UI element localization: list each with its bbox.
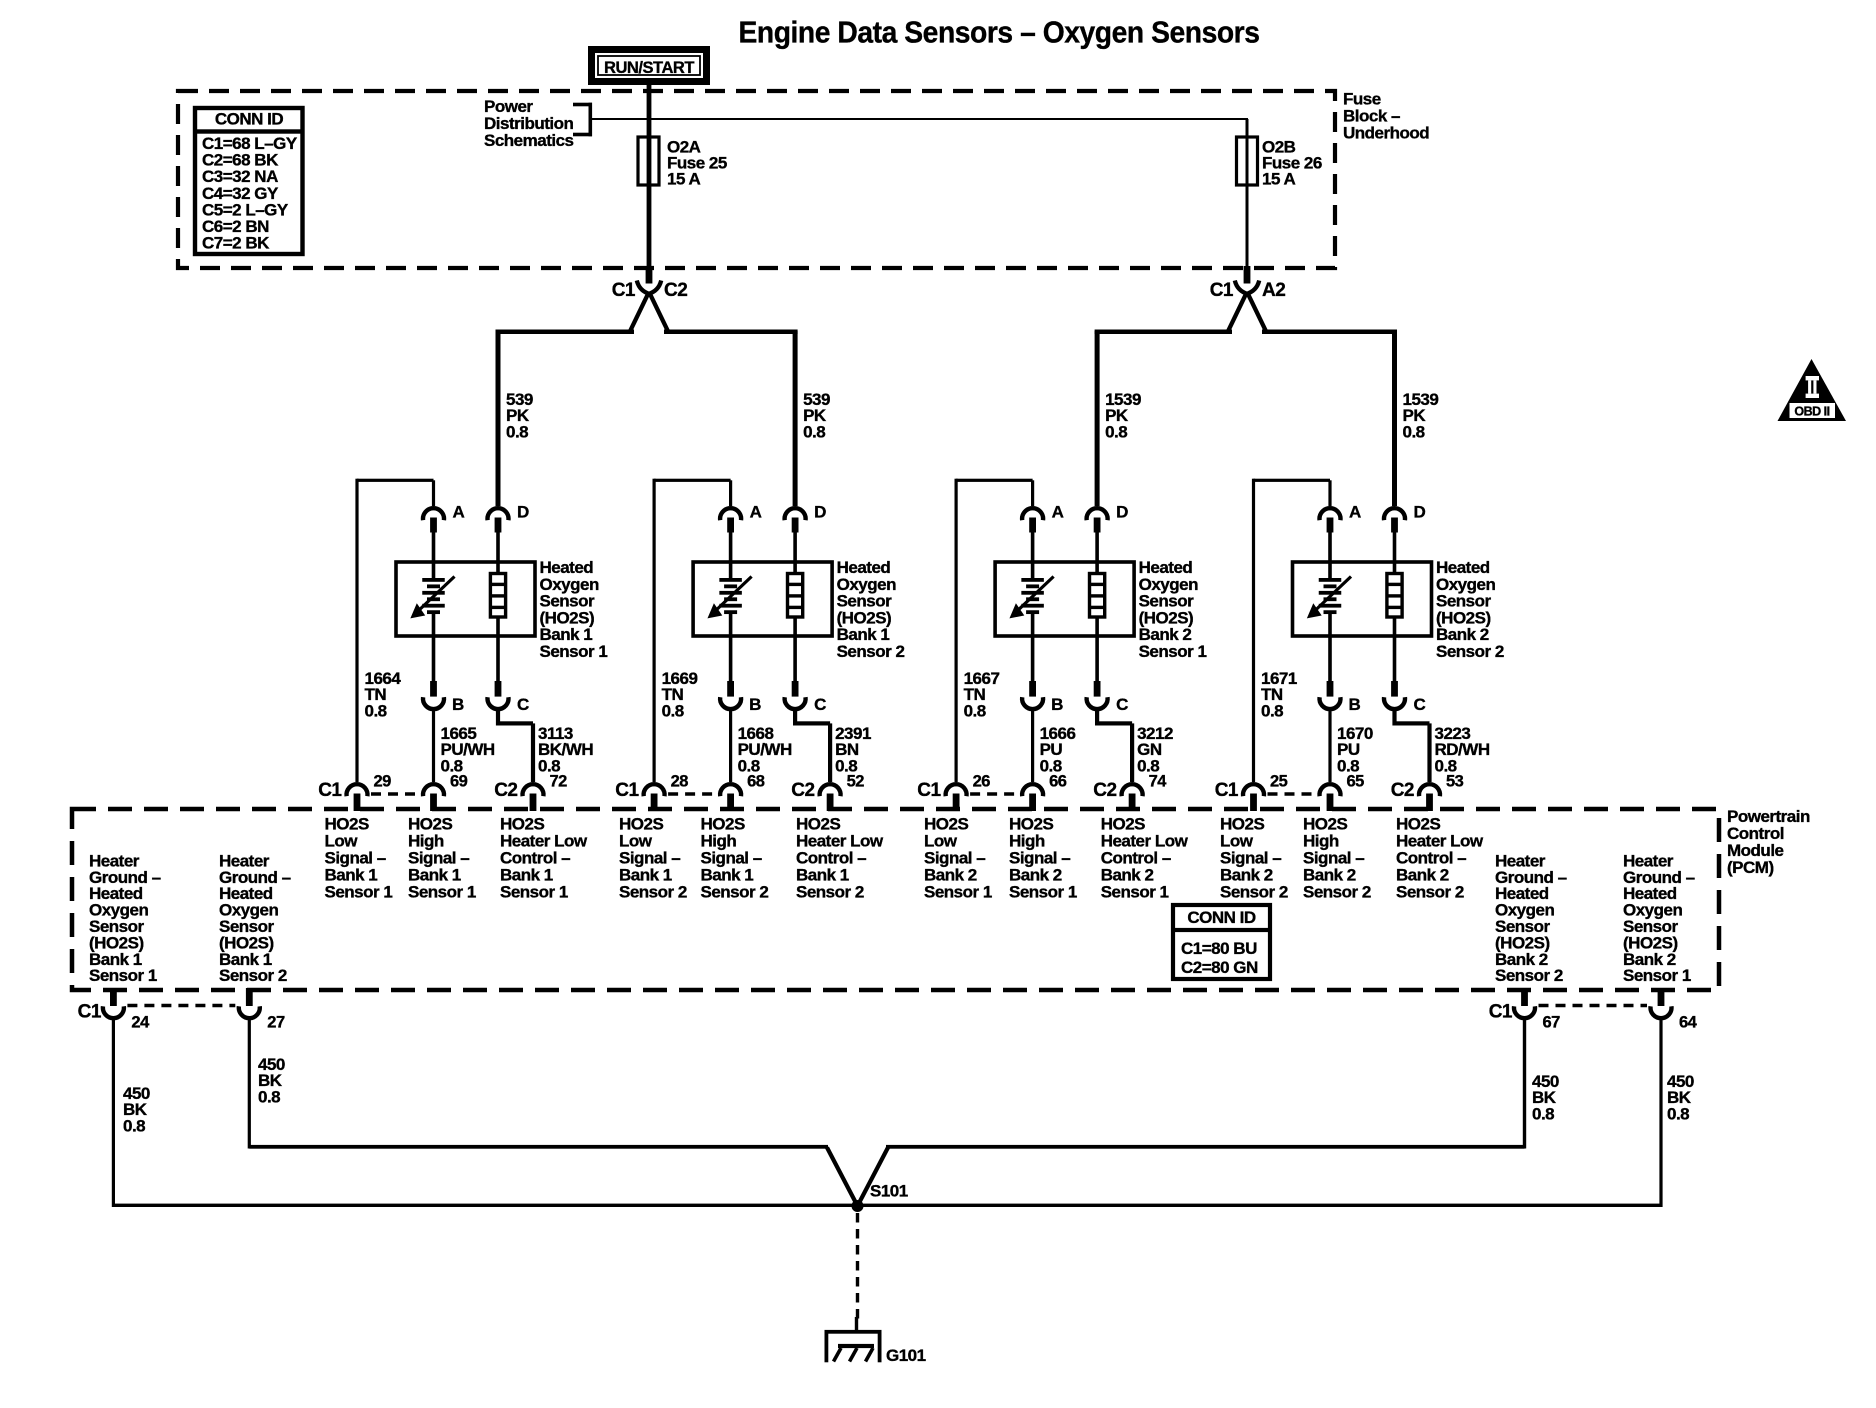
connector PCM C1 pin 24 (heater ground) [78, 988, 150, 1032]
svg-text:CONN ID: CONN ID [1187, 908, 1256, 927]
wire: 450 BK pin 24 to S101 [112, 1018, 115, 1208]
connector terminal B of HO2S B2S1 [1022, 681, 1063, 714]
svg-text:Sensor 2: Sensor 2 [701, 883, 769, 902]
svg-text:C1: C1 [1210, 280, 1234, 301]
connector terminal D of HO2S B1S1 [488, 503, 529, 533]
svg-text:B: B [749, 695, 761, 714]
label: PCM pin function Heater Low Bank 2 Sensor 2 [1396, 815, 1484, 902]
svg-text:0.8: 0.8 [1403, 422, 1425, 441]
label: PCM pin function Heater Ground Bank 2 Sensor 2 [1495, 851, 1567, 985]
svg-text:D: D [517, 503, 529, 522]
HO2S B1S2 sensor outline box [693, 562, 832, 636]
wire: feed to Fuse 26 [1246, 119, 1249, 268]
connector terminal C of HO2S B2S2 [1384, 681, 1426, 714]
label: circuit 539 PK 0.8 [506, 390, 533, 441]
svg-text:A: A [453, 503, 465, 522]
svg-text:Underhood: Underhood [1343, 124, 1429, 143]
connector terminal B of HO2S B1S1 [423, 681, 464, 714]
connector PCM pin 69 [423, 773, 468, 812]
label: PCM pin function Heater Low Bank 1 Sensor 2 [796, 815, 884, 902]
svg-text:C2=80 GN: C2=80 GN [1181, 958, 1258, 977]
wire: high signal B to PCM pin 68 [729, 708, 732, 782]
connector PCM C2 pin 74 [1093, 773, 1167, 812]
label: PCM pin function Heater Ground Bank 1 Sensor 1 [89, 851, 161, 985]
wire: dashed link S101 to G101 [856, 1213, 859, 1320]
label: circuit 3212 GN 0.8 [1137, 724, 1173, 775]
wire: high signal B to PCM pin 66 [1031, 708, 1034, 782]
label: PCM pin function High Bank 1 Sensor 1 [408, 815, 476, 902]
CONN ID table (PCM) [1173, 905, 1270, 979]
svg-text:Sensor 2: Sensor 2 [796, 883, 864, 902]
label: PCM pin function Heater Low Bank 1 Sensor 1 [500, 815, 588, 902]
label: circuit 450 BK 0.8 (pin 24) [123, 1084, 150, 1135]
heater element of HO2S B1S1 [490, 533, 505, 683]
label: PCM pin function High Bank 2 Sensor 1 [1009, 815, 1077, 902]
fuse O2B Fuse 26 15 A [1237, 137, 1322, 189]
connector terminal D of HO2S B1S2 [785, 503, 826, 533]
svg-text:Sensor 2: Sensor 2 [1436, 642, 1504, 661]
wire: terminal A lead into sensor element B2S1 [1031, 533, 1035, 579]
fuse O2A Fuse 25 15 A [638, 137, 727, 189]
wire: RUN/START feed to Fuse 25 [647, 85, 652, 268]
svg-text:RUN/START: RUN/START [604, 58, 695, 77]
HO2S B1S1 sensor outline box [396, 562, 535, 636]
svg-text:D: D [814, 503, 826, 522]
svg-text:C2: C2 [791, 780, 814, 801]
svg-text:Sensor 2: Sensor 2 [619, 883, 687, 902]
label: PCM pin function Heater Low Bank 2 Sensor 1 [1101, 815, 1189, 902]
svg-text:B: B [1349, 695, 1361, 714]
bracket for power distribution note [573, 103, 592, 137]
svg-text:C: C [814, 695, 826, 714]
label: circuit 1668 PU/WH 0.8 [738, 724, 792, 775]
label: PCM pin function High Bank 1 Sensor 2 [701, 815, 769, 902]
label: Powertrain Control Module (PCM) [1727, 807, 1810, 877]
connector C1 internal dashed link pins 26-66 [970, 792, 1019, 796]
svg-text:29: 29 [374, 773, 392, 791]
wire: low-signal loop from PCM pin 28 to terminal A of HO2S B1S2 [653, 479, 733, 782]
heater element of HO2S B2S2 [1387, 533, 1402, 683]
svg-text:74: 74 [1149, 773, 1168, 791]
svg-text:Sensor 2: Sensor 2 [1303, 883, 1371, 902]
svg-text:0.8: 0.8 [803, 422, 825, 441]
wire: 450 BK pin 67 to S101 [886, 1018, 1526, 1149]
svg-text:Engine Data Sensors – Oxygen S: Engine Data Sensors – Oxygen Sensors [739, 15, 1260, 50]
svg-text:A: A [750, 503, 762, 522]
svg-text:0.8: 0.8 [1667, 1104, 1689, 1123]
label: circuit 539 PK 0.8 [803, 390, 830, 441]
svg-text:0.8: 0.8 [1261, 701, 1283, 720]
wire: high signal B to PCM pin 69 [432, 708, 435, 782]
wire: sensor element to terminal B lead B1S2 [729, 614, 733, 682]
connector C1 internal dashed link pins 24-27 [127, 1004, 235, 1008]
svg-text:72: 72 [550, 773, 568, 791]
connector terminal C of HO2S B1S2 [785, 681, 826, 714]
label: Heated Oxygen Sensor (HO2S) Bank 1 Sensor 2 [837, 558, 905, 661]
label: circuit 450 BK 0.8 (pin 67) [1532, 1072, 1559, 1123]
svg-text:52: 52 [847, 773, 865, 791]
connector C1/C2 at fuse block exit (left) [612, 266, 688, 301]
connector PCM pin 66 [1022, 773, 1067, 812]
wire: low-signal loop from PCM pin 25 to terminal A of HO2S B2S2 [1252, 479, 1332, 782]
svg-text:65: 65 [1347, 773, 1365, 791]
svg-text:C1: C1 [917, 780, 941, 801]
svg-text:D: D [1414, 503, 1426, 522]
connector terminal D of HO2S B2S1 [1087, 503, 1129, 533]
connector terminal A of HO2S B1S2 [720, 503, 762, 533]
svg-text:0.8: 0.8 [662, 701, 684, 720]
svg-text:Schematics: Schematics [484, 131, 574, 150]
svg-text:Sensor 2: Sensor 2 [1220, 883, 1288, 902]
wire: terminal A lead into sensor element B1S1 [432, 533, 436, 579]
wire: heater low control C to PCM pin 52 [793, 708, 832, 782]
connector PCM C1 pin 64 (heater ground) [1650, 988, 1697, 1032]
wire: heater low control C to PCM pin 74 [1095, 708, 1134, 782]
connector PCM C1 pin 67 (heater ground) [1489, 988, 1560, 1032]
label: PCM pin function Heater Ground Bank 2 Sensor 1 [1623, 851, 1695, 985]
svg-text:C1: C1 [612, 280, 636, 301]
label: Heated Oxygen Sensor (HO2S) Bank 2 Sensor 2 [1436, 558, 1504, 661]
svg-text:27: 27 [267, 1014, 285, 1032]
Powertrain Control Module (PCM) dashed outline [72, 809, 1719, 990]
connector PCM C1 pin 29 [318, 773, 391, 812]
svg-text:Sensor 2: Sensor 2 [837, 642, 905, 661]
label: Heated Oxygen Sensor (HO2S) Bank 2 Sensor 1 [1139, 558, 1207, 661]
heater element of HO2S B2S1 [1090, 533, 1105, 683]
wire: 1539 PK feed to HO2S B2S2 heater (terminal D) [1392, 331, 1397, 506]
wire: terminal A lead into sensor element B1S2 [729, 533, 733, 579]
wire: ground bus to S101 [113, 1204, 1661, 1207]
connector C1 internal dashed link pins 29-69 [371, 792, 420, 796]
HO2S B2S1 sensor outline box [995, 562, 1134, 636]
label: circuit 1667 TN 0.8 [964, 669, 1000, 720]
svg-text:0.8: 0.8 [506, 422, 528, 441]
connector terminal B of HO2S B1S2 [720, 681, 761, 714]
wire: high signal B to PCM pin 65 [1328, 708, 1331, 782]
svg-text:Sensor 2: Sensor 2 [1495, 966, 1563, 985]
svg-text:26: 26 [973, 773, 991, 791]
svg-text:64: 64 [1679, 1014, 1698, 1032]
svg-text:Sensor 1: Sensor 1 [500, 883, 568, 902]
connector PCM C2 pin 53 [1391, 773, 1464, 812]
connector C1 internal dashed link pins 28-68 [668, 792, 717, 796]
connector terminal A of HO2S B2S1 [1022, 503, 1063, 533]
svg-text:C1: C1 [1215, 780, 1239, 801]
wire: X split from C1/C2 to branch feeds [496, 281, 798, 335]
svg-text:C2: C2 [1093, 780, 1116, 801]
wire: 450 BK pin 27 to S101 [248, 1018, 828, 1149]
wire: heater low control C to PCM pin 72 [496, 708, 535, 782]
label: Fuse Block - Underhood [1343, 90, 1429, 143]
svg-text:25: 25 [1270, 773, 1288, 791]
HO2S B2S2 sensor outline box [1293, 562, 1432, 636]
svg-text:67: 67 [1543, 1014, 1561, 1032]
label: circuit 1539 PK 0.8 [1403, 390, 1439, 441]
svg-text:A: A [1349, 503, 1361, 522]
svg-text:OBD II: OBD II [1794, 405, 1829, 419]
svg-text:Sensor 1: Sensor 1 [924, 883, 992, 902]
label: circuit 1539 PK 0.8 [1105, 390, 1141, 441]
svg-text:Sensor 2: Sensor 2 [219, 966, 287, 985]
label: circuit 1669 TN 0.8 [662, 669, 698, 720]
svg-text:0.8: 0.8 [123, 1116, 145, 1135]
wire: 539 PK feed to HO2S B1S1 heater (terminal D) [496, 331, 501, 506]
label: Heated Oxygen Sensor (HO2S) Bank 1 Sensor 1 [540, 558, 608, 661]
CONN ID table (fuse block) [195, 108, 303, 254]
connector PCM C2 pin 52 [791, 773, 864, 812]
sensor element (variable voltage cell) of HO2S B2S1 [1011, 577, 1054, 618]
label: PCM pin function High Bank 2 Sensor 2 [1303, 815, 1371, 902]
connector terminal A of HO2S B1S1 [423, 503, 464, 533]
svg-text:C1: C1 [78, 1002, 102, 1023]
wire: X split from C1/A2 to branch feeds [1095, 281, 1397, 335]
OBD II marker triangle [1778, 359, 1847, 421]
sensor element (variable voltage cell) of HO2S B2S2 [1309, 577, 1352, 618]
svg-text:66: 66 [1049, 773, 1067, 791]
svg-text:Sensor 1: Sensor 1 [1139, 642, 1207, 661]
svg-text:Sensor 2: Sensor 2 [1396, 883, 1464, 902]
svg-text:Sensor 1: Sensor 1 [89, 966, 157, 985]
wire: low-signal loop from PCM pin 29 to terminal A of HO2S B1S1 [355, 479, 435, 782]
svg-text:Sensor 1: Sensor 1 [325, 883, 393, 902]
sensor element (variable voltage cell) of HO2S B1S2 [709, 577, 752, 618]
connector C1/A2 at fuse block exit (right) [1210, 266, 1286, 301]
svg-text:C2: C2 [664, 280, 687, 301]
label: circuit 3223 RD/WH 0.8 [1435, 724, 1490, 775]
wire: terminal A lead into sensor element B2S2 [1328, 533, 1332, 579]
svg-text:C1: C1 [615, 780, 639, 801]
svg-text:0.8: 0.8 [1105, 422, 1127, 441]
svg-text:A: A [1052, 503, 1064, 522]
svg-text:53: 53 [1446, 773, 1464, 791]
sensor element (variable voltage cell) of HO2S B1S1 [412, 577, 455, 618]
label: circuit 450 BK 0.8 (pin 64) [1667, 1072, 1694, 1123]
label: circuit 2391 BN 0.8 [835, 724, 871, 775]
splice S101 [827, 1148, 908, 1213]
svg-text:(PCM): (PCM) [1727, 858, 1774, 877]
label: circuit 1670 PU 0.8 [1337, 724, 1373, 775]
wire: sensor element to terminal B lead B1S1 [432, 614, 436, 682]
svg-text:15 A: 15 A [667, 170, 701, 189]
label: circuit 3113 BK/WH 0.8 [538, 724, 593, 775]
svg-text:C1: C1 [1489, 1002, 1513, 1023]
connector PCM pin 68 [720, 773, 765, 812]
svg-text:Sensor 1: Sensor 1 [1009, 883, 1077, 902]
svg-text:0.8: 0.8 [258, 1087, 280, 1106]
connector terminal D of HO2S B2S2 [1384, 503, 1426, 533]
svg-text:S101: S101 [870, 1182, 908, 1201]
svg-text:0.8: 0.8 [964, 701, 986, 720]
svg-text:C: C [1414, 695, 1426, 714]
connector terminal A of HO2S B2S2 [1320, 503, 1362, 533]
svg-text:G101: G101 [886, 1346, 926, 1365]
ground G101 [825, 1317, 926, 1365]
label: PCM pin function Heater Ground Bank 1 Sensor 2 [219, 851, 291, 985]
label: PCM pin function Low Bank 1 Sensor 2 [619, 815, 687, 902]
svg-text:Sensor 1: Sensor 1 [1101, 883, 1169, 902]
svg-text:Sensor 1: Sensor 1 [540, 642, 608, 661]
svg-text:A2: A2 [1262, 280, 1285, 301]
connector PCM pin 65 [1320, 773, 1365, 812]
svg-text:C: C [1116, 695, 1128, 714]
wire: sensor element to terminal B lead B2S2 [1328, 614, 1332, 682]
svg-text:B: B [452, 695, 464, 714]
svg-text:C7=2 BK: C7=2 BK [202, 234, 270, 253]
title: Engine Data Sensors - Oxygen Sensors [739, 15, 1260, 50]
wire: 450 BK pin 64 to S101 [1659, 1018, 1662, 1208]
svg-text:C1: C1 [318, 780, 342, 801]
connector terminal C of HO2S B2S1 [1087, 681, 1129, 714]
svg-text:0.8: 0.8 [1532, 1104, 1554, 1123]
label: PCM pin function Low Bank 1 Sensor 1 [325, 815, 393, 902]
connector C1 internal dashed link pins 25-65 [1268, 792, 1317, 796]
svg-text:D: D [1116, 503, 1128, 522]
wire: sensor element to terminal B lead B2S1 [1031, 614, 1035, 682]
wire: 1539 PK feed to HO2S B2S1 heater (terminal D) [1095, 331, 1100, 506]
svg-text:28: 28 [671, 773, 689, 791]
Fuse Block - Underhood dashed outline [178, 91, 1335, 268]
svg-text:Sensor 1: Sensor 1 [408, 883, 476, 902]
svg-text:69: 69 [450, 773, 468, 791]
svg-text:C: C [517, 695, 529, 714]
svg-text:0.8: 0.8 [365, 701, 387, 720]
label: circuit 1664 TN 0.8 [365, 669, 402, 720]
svg-text:C1=80 BU: C1=80 BU [1181, 939, 1257, 958]
label: circuit 1665 PU/WH 0.8 [441, 724, 495, 775]
svg-text:C2: C2 [494, 780, 517, 801]
svg-text:B: B [1051, 695, 1063, 714]
label: circuit 1671 TN 0.8 [1261, 669, 1297, 720]
svg-text:C2: C2 [1391, 780, 1414, 801]
label: PCM pin function Low Bank 2 Sensor 2 [1220, 815, 1288, 902]
note: Power Distribution Schematics [484, 97, 574, 150]
svg-text:68: 68 [747, 773, 765, 791]
connector PCM C1 pin 26 [917, 773, 990, 812]
connector terminal B of HO2S B2S2 [1320, 681, 1361, 714]
label: PCM pin function Low Bank 2 Sensor 1 [924, 815, 992, 902]
connector PCM C2 pin 72 [494, 773, 567, 812]
svg-text:15 A: 15 A [1262, 170, 1296, 189]
wire: heater low control C to PCM pin 53 [1392, 708, 1431, 782]
svg-text:Sensor 1: Sensor 1 [1623, 966, 1691, 985]
label: circuit 450 BK 0.8 (pin 27) [258, 1055, 285, 1106]
connector PCM C1 pin 27 (heater ground) [239, 988, 285, 1032]
heater element of HO2S B1S2 [788, 533, 803, 683]
wire: ignition feed bus (thin) [592, 118, 1248, 120]
label: circuit 1666 PU 0.8 [1040, 724, 1076, 775]
connector terminal C of HO2S B1S1 [488, 681, 529, 714]
connector C1 internal dashed link pins 67-64 [1539, 1004, 1648, 1008]
svg-text:24: 24 [131, 1014, 150, 1032]
wire: 539 PK feed to HO2S B1S2 heater (terminal D) [793, 331, 798, 506]
connector PCM C1 pin 28 [615, 773, 688, 812]
svg-text:CONN ID: CONN ID [215, 110, 284, 129]
wire: low-signal loop from PCM pin 26 to terminal A of HO2S B2S1 [955, 479, 1035, 782]
RUN/START hot-in-run feed box [592, 50, 707, 82]
connector PCM C1 pin 25 [1215, 773, 1288, 812]
